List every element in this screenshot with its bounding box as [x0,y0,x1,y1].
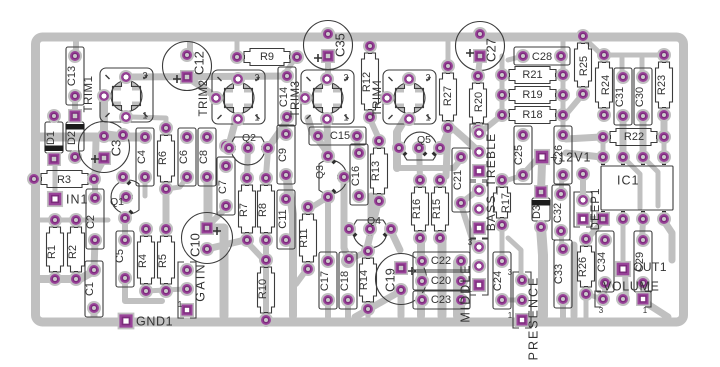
svg-text:C11: C11 [277,209,289,228]
node +12V1 [534,149,592,165]
wire [344,177,348,258]
wire [502,175,523,182]
svg-text:3: 3 [254,72,259,82]
wire [500,56,505,115]
svg-text:GND1: GND1 [136,314,173,328]
svg-text:R27: R27 [442,86,454,106]
svg-text:3: 3 [599,306,604,315]
svg-text:C21: C21 [452,170,464,190]
capacitor C25 [513,126,532,184]
wire [461,191,477,203]
capacitor C19 (electrolytic) [376,254,427,305]
wire [620,58,625,76]
wire [391,231,400,250]
wire [571,245,578,316]
svg-text:3: 3 [508,268,513,277]
capacitor C10 (electrolytic) [182,213,233,264]
capacitor C28 [514,47,570,65]
svg-text:D3: D3 [531,205,543,219]
resistor R9 [230,49,304,66]
svg-text:R6: R6 [157,151,169,165]
svg-text:1: 1 [343,112,348,122]
resistor R7 [238,171,256,247]
wire [287,59,295,70]
wire [204,177,213,226]
svg-text:C17: C17 [319,271,331,291]
wire [325,200,331,244]
wire [327,119,328,155]
wire [459,261,464,300]
wire [366,309,371,317]
resistor R17 [494,173,512,232]
svg-text:C13: C13 [66,66,78,86]
wire [355,292,399,317]
node GND1 [118,313,174,330]
wire [319,139,328,156]
wire [126,76,287,77]
svg-text:C31: C31 [614,87,626,107]
capacitor C6 [178,128,196,186]
wire [73,40,79,56]
wire [345,302,351,317]
wire [643,157,658,206]
node pad [219,139,233,153]
svg-text:C28: C28 [532,51,552,63]
node OUT1 [615,260,667,277]
capacitor C4 [136,128,154,186]
wire [95,160,104,176]
wire [584,294,589,317]
connector BASS [470,182,488,238]
svg-text:R24: R24 [600,75,612,95]
resistor R12 [361,39,379,124]
capacitor C15 [309,127,366,145]
resistor R1 [46,213,64,286]
svg-text:R25: R25 [578,56,590,76]
svg-text:IN1: IN1 [66,192,88,206]
resistor R25 [575,29,592,101]
wire [459,300,465,316]
capacitor C24 [492,252,511,309]
resistor R8 [257,171,275,247]
wire [247,148,248,176]
connector PRESENCE [508,268,541,360]
wire [643,301,668,317]
node pad [116,128,130,142]
svg-text:R7: R7 [238,203,250,217]
wire [620,116,627,157]
wire [266,150,268,176]
resistor R21 [495,67,570,84]
wire [235,40,240,56]
trimmer TRIM2 [198,70,265,126]
svg-text:OUT1: OUT1 [633,260,667,274]
resistor R24 [596,48,613,122]
svg-text:R9: R9 [260,51,274,63]
resistor R13 [370,134,388,208]
wire [146,289,185,291]
svg-text:1: 1 [142,110,147,120]
svg-text:R4: R4 [137,254,149,268]
capacitor C33 [553,240,572,308]
capacitor C18 [339,252,357,309]
trimmer TRIM1 [83,68,153,124]
wire [604,283,605,299]
wire [642,221,643,238]
wire [397,117,406,168]
resistor R18 [495,107,570,124]
resistor R27 [440,59,457,135]
wire [508,238,521,278]
svg-text:R14: R14 [358,270,370,290]
svg-text:C6: C6 [178,150,190,164]
wire [583,216,603,222]
board outline ground ring [36,37,684,322]
wire [247,242,263,259]
resistor R14 [358,244,377,316]
wire [207,240,245,249]
wire [91,308,98,318]
svg-text:3: 3 [468,238,473,247]
wire [368,231,370,249]
capacitor C23 [413,291,470,309]
svg-text:C22: C22 [431,255,451,267]
wire [417,240,425,316]
wire [502,298,522,303]
wire [370,119,379,139]
capacitor C34 [596,231,614,292]
wire [441,130,448,148]
wire [325,56,331,74]
svg-text:C15: C15 [330,130,350,142]
svg-text:C18: C18 [339,271,351,291]
wire [312,197,328,207]
svg-text:Q2: Q2 [242,132,256,144]
svg-text:C5: C5 [114,249,126,263]
svg-text:C23: C23 [431,294,451,306]
wire [125,280,162,301]
wire [366,199,379,252]
wire [604,53,664,58]
svg-text:Q4: Q4 [367,215,381,227]
svg-text:C35: C35 [332,33,347,57]
wire [588,221,603,238]
wire [453,262,461,316]
wire [584,38,602,55]
resistor R3 [27,171,101,188]
wire [541,163,542,192]
wire [368,40,373,46]
svg-text:R17: R17 [500,193,512,213]
node pad [576,167,590,181]
op-amp IC1 [596,150,673,226]
wire [107,133,123,135]
resistor R5 [157,222,175,298]
connector VOLUME [595,279,659,315]
capacitor C9 [277,125,295,184]
wire [419,148,420,178]
svg-text:R5: R5 [157,254,169,268]
svg-text:R10: R10 [257,279,269,299]
wire [664,221,672,260]
svg-text:R21: R21 [522,69,542,81]
transistor Q2 [222,132,275,165]
wire [163,189,170,222]
svg-text:C7: C7 [217,180,229,194]
resistor R4 [137,222,155,298]
capacitor C11 [277,190,295,249]
wire [348,252,366,260]
wire [308,118,326,150]
svg-text:C24: C24 [492,271,504,291]
wire [100,97,108,134]
wire [560,299,566,317]
wire [621,219,626,269]
svg-text:R2: R2 [67,245,79,259]
wire [566,153,601,157]
svg-text:C33: C33 [553,264,565,284]
svg-text:3: 3 [142,70,147,80]
resistor R22 [596,129,671,146]
svg-text:R3: R3 [57,174,71,186]
svg-text:C14: C14 [278,87,290,107]
wire [641,283,646,299]
svg-text:R18: R18 [522,109,542,121]
capacitor C17 [319,252,337,309]
capacitor C8 [198,128,216,186]
wire [72,96,78,116]
svg-text:C3: C3 [108,140,123,157]
wire [53,159,58,199]
wire [601,137,606,157]
svg-text:R13: R13 [370,161,382,181]
svg-text:Q3: Q3 [314,165,326,179]
wire [268,121,287,148]
svg-text:IC1: IC1 [617,173,639,187]
wire [640,116,647,157]
wire [586,294,603,299]
svg-text:R1: R1 [46,245,58,259]
svg-text:DEEP1: DEEP1 [590,188,602,231]
svg-text:R20: R20 [473,92,485,112]
svg-text:R22: R22 [624,131,644,143]
wire [661,116,668,137]
connector TREBLE [470,124,488,180]
wire [561,231,562,247]
svg-text:C34: C34 [596,252,608,272]
diode D3 [531,185,551,234]
capacitor C5 [114,231,134,287]
resistor R10 [257,253,275,327]
capacitor C16 [350,144,368,205]
capacitor C3 (electrolytic) [79,122,130,173]
svg-text:D2: D2 [66,131,78,145]
svg-text:C25: C25 [513,145,525,165]
wire [541,227,543,316]
svg-text:1: 1 [508,311,513,320]
wire [166,177,187,189]
capacitor C30 [634,68,652,125]
wire [263,242,269,318]
wire [623,157,640,208]
diode D2 [66,109,85,164]
svg-text:R11: R11 [298,228,310,247]
svg-text:C32: C32 [552,203,564,223]
resistor R19 [495,87,570,104]
connector MIDDLE [458,238,488,323]
transistor Q4 [342,215,398,248]
resistor R20 [470,69,487,137]
capacitor C35 (electrolytic) [304,21,353,70]
svg-text:C20: C20 [431,275,451,287]
svg-text:D1: D1 [45,131,57,145]
wire [131,117,166,127]
node pad [342,252,356,266]
wire [207,228,224,316]
transistor Q5 [392,132,447,160]
svg-text:R16: R16 [411,199,423,219]
resistor R16 [411,173,429,245]
svg-text:1: 1 [425,112,430,122]
wire [287,176,293,316]
svg-text:3: 3 [425,72,430,82]
svg-text:C1: C1 [84,282,96,296]
wire [37,271,94,279]
wire [357,139,358,155]
capacitor C26 [553,126,572,184]
trimmer TRIM3 [298,70,354,126]
wire [625,271,626,297]
wire [561,40,566,115]
wire [325,244,331,261]
capacitor C27 (electrolytic) [456,22,505,71]
capacitor C2 [85,189,104,249]
wire [567,94,583,113]
diode D1 [45,109,64,166]
svg-text:C10: C10 [187,233,202,257]
wire [481,115,502,132]
svg-text:C30: C30 [634,87,646,107]
svg-text:R19: R19 [522,89,542,101]
capacitor C20 [413,272,470,290]
connector GAIN [178,262,208,318]
wire [94,240,95,270]
capacitor C12 (electrolytic) [163,42,212,91]
wire [95,140,96,179]
resistor R26 [577,232,595,301]
svg-text:Q1: Q1 [110,196,124,208]
resistor R2 [67,213,85,286]
resistor R23 [656,48,673,122]
transistor Q3 [314,149,351,204]
wire [500,225,505,261]
connector DEEP1 [574,188,602,231]
wire [211,208,226,223]
resistor R11 [298,200,317,276]
wire [325,302,331,317]
capacitor C13 [66,47,84,105]
svg-text:Q5: Q5 [417,134,431,146]
wire [187,40,193,54]
wire [640,58,645,76]
wire [525,158,538,172]
transistor Q1 [110,170,139,225]
svg-text:TRIM2: TRIM2 [198,80,210,117]
resistor R15 [431,173,449,245]
node IN1 [47,191,89,207]
svg-text:1: 1 [178,300,183,309]
svg-text:C9: C9 [277,148,289,162]
wire [561,115,566,135]
wire [296,269,307,284]
capacitor C31 [614,68,632,125]
wire [446,127,448,176]
wire [397,159,461,168]
svg-text:C2: C2 [85,215,97,229]
svg-text:3: 3 [343,72,348,82]
wire [92,179,98,198]
wire [580,174,586,200]
capacitor C22 [413,252,470,270]
wire [398,290,405,316]
wire [446,40,451,64]
svg-text:C27: C27 [483,38,498,62]
capacitor C14 [278,67,296,126]
wire [37,133,144,142]
wire [566,137,601,139]
svg-text:C16: C16 [350,166,362,186]
capacitor C32 [552,185,570,240]
svg-text:C8: C8 [198,150,210,164]
wire [368,196,375,228]
capacitor C1 [84,261,103,317]
wire [286,177,287,197]
svg-text:VOLUME: VOLUME [603,279,659,293]
svg-text:C19: C19 [382,268,397,292]
capacitor C29 [634,231,652,292]
wire [461,205,475,248]
wire [478,58,480,74]
capacitor C7 [217,157,235,215]
svg-text:GAIN: GAIN [193,262,207,301]
svg-text:+12V1: +12V1 [550,150,592,164]
svg-text:R23: R23 [656,75,668,95]
svg-text:C4: C4 [136,150,148,164]
wire [40,218,108,223]
svg-text:1: 1 [254,112,259,122]
wire [143,174,148,196]
svg-text:1: 1 [468,285,473,294]
svg-text:R8: R8 [257,203,269,217]
svg-text:PRESENCE: PRESENCE [526,276,540,361]
svg-text:TRIM1: TRIM1 [83,76,95,113]
wire [187,77,216,97]
wire [438,240,447,316]
trimmer TRIM4 [380,70,436,126]
svg-text:1: 1 [643,306,648,315]
wire [508,56,523,60]
svg-text:R15: R15 [431,199,443,219]
resistor R6 [157,121,175,196]
wire [448,124,477,150]
wire [561,175,562,194]
svg-text:C12: C12 [191,51,206,75]
capacitor C21 [452,148,470,212]
wire [229,119,236,145]
svg-text:R26: R26 [577,257,589,277]
wire [122,218,128,240]
wire [662,137,667,157]
